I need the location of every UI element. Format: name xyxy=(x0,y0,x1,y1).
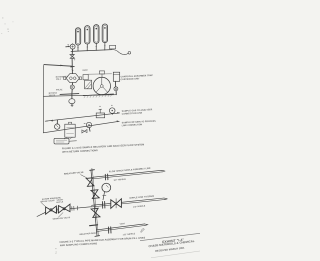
branch pipe R3 (vent, bottom right) xyxy=(96,224,144,230)
branch pipe R2 (middle, to right) xyxy=(92,198,164,205)
riser valve VB-B (vertical bowtie) xyxy=(91,190,99,199)
inlet assembly (left, horizontal) xyxy=(45,207,92,211)
inlet valve bulb (left of tubes) xyxy=(70,44,75,49)
sample tube T1 xyxy=(75,28,80,51)
exhibit stamp xyxy=(140,229,200,258)
sample bulb (oval) xyxy=(69,99,75,104)
union ticks between valves xyxy=(57,206,78,213)
filter F1 on pipe1 xyxy=(96,113,105,118)
labels bottom diagram xyxy=(40,167,154,237)
R3 union ticks xyxy=(107,227,109,233)
R1 union ticks xyxy=(104,174,106,180)
pump P1 (wheel) xyxy=(93,77,110,94)
valve V3 (circle-X under column) xyxy=(114,81,116,87)
R1 open end xyxy=(162,170,165,172)
caption figure 1 xyxy=(62,143,144,154)
riser valve VB-C (vertical bowtie) xyxy=(91,208,100,217)
valve V2 (circle-X under flow meter) xyxy=(71,83,73,85)
return header line xyxy=(43,95,116,97)
riser top cap xyxy=(90,169,95,172)
gate valve GV1 (bowtie) xyxy=(46,206,57,214)
labels (tiny smudge text) top diagram xyxy=(49,70,157,128)
valve bulb on pipe1 xyxy=(109,108,115,114)
riser pipe (main vertical) xyxy=(91,170,97,235)
valve bulb on pipe2 xyxy=(86,122,91,127)
pressure gauge PG xyxy=(102,183,111,192)
recorder box xyxy=(54,138,69,144)
riser flange bar xyxy=(90,224,98,227)
sample tube T3 xyxy=(94,25,99,51)
valve X2 (bowtie) on pipe2 xyxy=(82,130,87,134)
flow meter FM (hexagon) xyxy=(66,74,79,83)
pressure gauge on pipe1 xyxy=(55,124,60,129)
return line pipe2 xyxy=(43,121,119,133)
regulator R on pipe2 xyxy=(69,122,72,124)
drain leg with valve X1 xyxy=(71,51,73,54)
R2 open end xyxy=(164,198,167,200)
R3 open end xyxy=(145,224,148,226)
riser valve VB-A (vertical bowtie) xyxy=(86,178,94,187)
tee line into enclosure xyxy=(44,65,72,67)
condensate trap at manifold right end xyxy=(110,45,116,49)
manifold stem dots xyxy=(77,45,105,48)
R2 union ticks xyxy=(101,202,103,209)
inlet arrow xyxy=(66,46,69,48)
dashed links to recorder xyxy=(64,137,66,139)
caption figure 2 xyxy=(59,236,145,247)
sample line pipe1 xyxy=(45,113,119,121)
bypass tee and line xyxy=(60,93,79,96)
branch pipe R1 (top, to right) xyxy=(93,170,162,177)
riser bottom cap xyxy=(95,235,100,238)
pump motor M xyxy=(83,75,88,80)
sample tube T4 xyxy=(102,24,107,50)
pen squiggle xyxy=(141,229,145,233)
R2 valve (horizontal bowtie) xyxy=(111,199,122,209)
adsorber column (tall rect) xyxy=(113,72,119,81)
svg-text:RECEIVED MARCH 1981: RECEIVED MARCH 1981 xyxy=(155,247,185,253)
leader lines for labels xyxy=(41,202,46,207)
gate valve GV2 (bowtie) xyxy=(58,204,70,213)
scan specks bottom left xyxy=(55,248,57,254)
sample tube T2 xyxy=(85,26,90,51)
pump base platform with hatching xyxy=(83,94,113,96)
feed line down to flow meter xyxy=(71,58,73,73)
enclosure left wall xyxy=(42,65,45,133)
vent line across top of pump xyxy=(88,73,112,75)
page background xyxy=(0,0,200,261)
valve X1 (vertical bowtie) xyxy=(70,54,75,58)
scan specks left edge xyxy=(1,18,13,34)
manifold header line xyxy=(71,50,112,52)
